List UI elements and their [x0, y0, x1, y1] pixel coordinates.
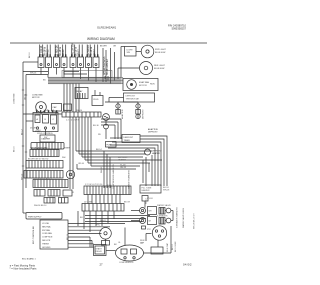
svg-text:DEF HTR: DEF HTR — [42, 240, 51, 242]
svg-text:WH-18: WH-18 — [163, 190, 170, 192]
svg-text:COMPRESSOR HARNESS: COMPRESSOR HARNESS — [112, 164, 115, 189]
svg-text:BK WH: BK WH — [100, 46, 107, 48]
svg-text:GN-18: GN-18 — [120, 167, 127, 169]
svg-text:BK-18: BK-18 — [163, 187, 169, 189]
svg-text:GROUND: GROUND — [42, 247, 51, 249]
svg-text:WH-12: WH-12 — [101, 166, 103, 173]
svg-text:PTC: PTC — [96, 225, 101, 227]
svg-text:5995358257: 5995358257 — [172, 26, 187, 30]
svg-text:MOTOR: MOTOR — [139, 85, 147, 87]
svg-text:HEATER: HEATER — [118, 159, 127, 162]
svg-text:FRZ FAN: FRZ FAN — [42, 229, 51, 232]
svg-text:DEFROST: DEFROST — [143, 109, 145, 119]
svg-text:GLRS264ZAW1: GLRS264ZAW1 — [97, 26, 117, 30]
svg-text:WH-12: WH-12 — [22, 173, 24, 180]
svg-text:COLD CONTROL: COLD CONTROL — [37, 133, 54, 135]
svg-text:WATER VALVE HRNS: WATER VALVE HRNS — [182, 207, 185, 228]
svg-text:BK-12 LINE: BK-12 LINE — [175, 241, 177, 252]
svg-text:SW: SW — [44, 110, 47, 112]
svg-text:BK-14 CABINET: BK-14 CABINET — [106, 58, 109, 75]
svg-text:OVLD: OVLD — [93, 99, 99, 101]
svg-text:J2 CONN: J2 CONN — [84, 202, 93, 204]
svg-text:EDC CONTROL BD: EDC CONTROL BD — [33, 226, 35, 244]
svg-text:COND FAN: COND FAN — [13, 93, 16, 104]
svg-text:TERMINAL BOARD: TERMINAL BOARD — [30, 147, 48, 150]
svg-text:GY-18: GY-18 — [147, 198, 153, 200]
svg-text:PWR SUPPLY: PWR SUPPLY — [28, 217, 42, 219]
svg-text:WH: WH — [62, 157, 66, 159]
svg-text:RUN CAP: RUN CAP — [166, 242, 169, 252]
svg-text:PTC: PTC — [147, 229, 152, 231]
svg-text:GN-YL: GN-YL — [25, 93, 27, 100]
svg-text:FRZ LIGHT: FRZ LIGHT — [155, 49, 166, 51]
svg-text:BULB 40W: BULB 40W — [155, 52, 165, 54]
svg-text:RELAY: RELAY — [96, 250, 103, 253]
svg-text:04/02: 04/02 — [183, 263, 192, 267]
svg-text:BK GY: BK GY — [124, 202, 131, 204]
svg-text:BK-16: BK-16 — [14, 146, 16, 152]
svg-text:RUN: RUN — [150, 84, 155, 86]
svg-text:* = Non-Insulated Parts: * = Non-Insulated Parts — [10, 267, 38, 271]
svg-text:BK-12: BK-12 — [172, 244, 174, 250]
svg-text:FILL TUBE: FILL TUBE — [142, 188, 152, 190]
svg-text:LIGHT: LIGHT — [127, 50, 134, 52]
svg-text:DEFROST: DEFROST — [124, 137, 134, 139]
svg-text:SW: SW — [44, 137, 47, 139]
svg-text:BK-16: BK-16 — [29, 52, 31, 58]
svg-text:DEFROST: DEFROST — [148, 132, 158, 134]
svg-text:CAP: CAP — [53, 106, 58, 109]
svg-text:EVAP FAN: EVAP FAN — [139, 81, 149, 84]
svg-text:IM: IM — [149, 221, 152, 223]
svg-text:COMP RUN: COMP RUN — [42, 237, 53, 239]
svg-text:1 2 3 4 5 6 7 8: 1 2 3 4 5 6 7 8 — [66, 120, 80, 122]
svg-text:REF LIGHT: REF LIGHT — [154, 65, 166, 67]
svg-text:BU-16: BU-16 — [93, 125, 100, 127]
svg-text:PK TN GN YL BR VT: PK TN GN YL BR VT — [33, 178, 53, 180]
svg-text:WATER VALVE: WATER VALVE — [157, 204, 171, 207]
svg-text:27: 27 — [100, 263, 104, 267]
svg-text:WH-12: WH-12 — [100, 220, 107, 222]
svg-text:CAP: CAP — [140, 242, 145, 245]
svg-text:THERM: THERM — [42, 243, 49, 245]
svg-text:TIMER: TIMER — [64, 148, 71, 150]
svg-text:RELAY: RELAY — [76, 90, 83, 93]
svg-text:ICEMAKER HARNESS: ICEMAKER HARNESS — [176, 207, 179, 228]
svg-text:WH-14: WH-14 — [76, 110, 83, 112]
svg-text:THERMOSTAT: THERMOSTAT — [126, 98, 140, 101]
svg-text:BK-12: BK-12 — [22, 129, 24, 135]
svg-text:EDC BOARD 1: EDC BOARD 1 — [22, 258, 36, 261]
svg-text:OR-16: OR-16 — [78, 163, 85, 165]
svg-text:WH-18 BK-18 GY: WH-18 BK-18 GY — [194, 213, 196, 229]
svg-text:FUSE: FUSE — [107, 145, 113, 147]
svg-text:ADAPTIVE: ADAPTIVE — [121, 108, 124, 119]
svg-text:GY-14: GY-14 — [63, 110, 69, 112]
svg-text:BK WH OR GY BU RD: BK WH OR GY BU RD — [28, 159, 49, 161]
svg-text:WH-14 BK-14: WH-14 BK-14 — [34, 205, 47, 207]
svg-text:BK-14: BK-14 — [96, 149, 102, 151]
svg-text:BULB 40W: BULB 40W — [154, 68, 164, 70]
svg-text:MOTOR: MOTOR — [32, 97, 40, 99]
svg-text:SW: SW — [127, 52, 130, 54]
svg-text:WH-16: WH-16 — [30, 73, 37, 75]
svg-text:1 2 3 4 5 6 7 8 9 10: 1 2 3 4 5 6 7 8 9 10 — [85, 184, 103, 186]
svg-text:COMPRESSOR: COMPRESSOR — [119, 262, 134, 264]
svg-text:DEFROST: DEFROST — [126, 96, 136, 98]
svg-text:ICEMAKER: ICEMAKER — [157, 215, 168, 218]
svg-text:HEATER: HEATER — [142, 189, 151, 192]
svg-text:L1 LINE: L1 LINE — [42, 223, 50, 225]
svg-text:NEUTRAL: NEUTRAL — [42, 225, 51, 228]
svg-text:TIMER: TIMER — [124, 140, 131, 142]
svg-text:COND FAN: COND FAN — [42, 232, 52, 235]
svg-text:WIRING DIAGRAM: WIRING DIAGRAM — [87, 37, 115, 41]
svg-text:RD-12: RD-12 — [67, 233, 69, 240]
svg-text:HEATER: HEATER — [152, 152, 161, 155]
